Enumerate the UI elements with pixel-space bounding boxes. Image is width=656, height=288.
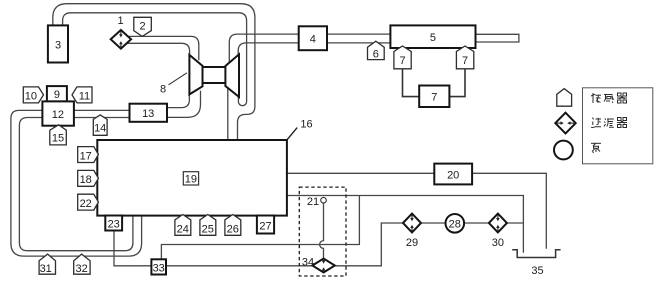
svg-text:32: 32 (75, 263, 87, 275)
svg-text:7: 7 (462, 55, 468, 67)
svg-text:11: 11 (79, 91, 90, 103)
svg-text:4: 4 (310, 34, 316, 46)
svg-text:7: 7 (399, 55, 405, 67)
svg-text:7: 7 (431, 92, 437, 104)
svg-text:18: 18 (80, 174, 92, 186)
svg-text:17: 17 (80, 150, 92, 162)
svg-text:30: 30 (492, 237, 504, 249)
svg-text:10: 10 (25, 91, 37, 103)
svg-text:19: 19 (185, 174, 197, 186)
svg-text:14: 14 (94, 123, 106, 135)
svg-text:21: 21 (307, 196, 319, 208)
svg-text:22: 22 (80, 198, 92, 210)
svg-text:6: 6 (373, 49, 379, 61)
svg-text:25: 25 (202, 223, 214, 235)
svg-text:26: 26 (227, 223, 239, 235)
svg-text:27: 27 (259, 220, 271, 232)
svg-text:28: 28 (449, 218, 461, 230)
svg-text:29: 29 (406, 237, 418, 249)
svg-text:35: 35 (531, 265, 543, 277)
svg-text:33: 33 (153, 262, 165, 274)
svg-text:31: 31 (40, 263, 52, 275)
svg-text:15: 15 (52, 133, 64, 145)
svg-text:20: 20 (447, 170, 459, 182)
svg-text:2: 2 (139, 21, 145, 33)
svg-text:23: 23 (108, 218, 120, 230)
svg-text:13: 13 (142, 108, 154, 120)
svg-text:8: 8 (160, 84, 166, 96)
svg-text:34: 34 (302, 256, 314, 268)
svg-text:9: 9 (54, 89, 60, 101)
svg-text:5: 5 (430, 32, 436, 44)
svg-text:24: 24 (177, 223, 189, 235)
svg-text:1: 1 (117, 15, 123, 27)
svg-text:16: 16 (300, 119, 312, 131)
svg-text:12: 12 (52, 109, 64, 121)
svg-text:3: 3 (55, 40, 61, 52)
